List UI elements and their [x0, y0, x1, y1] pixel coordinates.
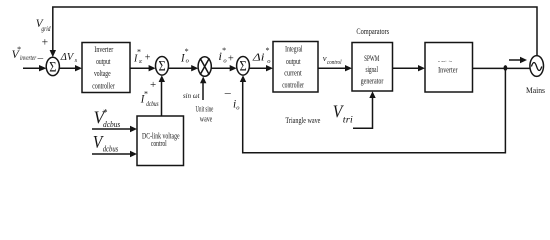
svg-text:tri: tri	[343, 116, 353, 126]
svg-text:o: o	[267, 58, 271, 65]
block text: SPWM signal generator	[361, 54, 384, 86]
svg-text:sin ωt: sin ωt	[183, 91, 200, 100]
svg-text:Integral: Integral	[285, 45, 303, 54]
label: Vgrid	[36, 16, 51, 49]
wire: sum2 to multiplier	[168, 65, 198, 71]
svg-text:controller: controller	[92, 82, 115, 91]
svg-text:+: +	[42, 36, 49, 48]
wire: unit sine wave input to multiplier	[200, 77, 206, 101]
label: I*dcbus	[140, 90, 159, 109]
summing junction S2	[156, 57, 169, 76]
svg-text:current: current	[284, 69, 302, 78]
block text: integral output current controller	[282, 45, 304, 90]
block: inverter output voltage controller	[82, 43, 130, 93]
svg-text:output: output	[286, 57, 301, 66]
svg-text:control: control	[327, 59, 342, 66]
block text: inverter output voltage controller	[92, 45, 115, 91]
svg-text:dcbus: dcbus	[103, 120, 120, 129]
label: V*inverter	[12, 45, 44, 64]
svg-text:Σ: Σ	[240, 59, 247, 75]
wire: current controller to SPWM	[318, 65, 352, 71]
svg-text:Comparators: Comparators	[356, 27, 389, 36]
svg-text:Inverter: Inverter	[438, 66, 458, 75]
summing junction S1	[46, 57, 59, 75]
label: V*dcbus	[94, 108, 121, 130]
wire: bottom feedback io from node to sum3	[240, 70, 506, 153]
svg-text:Δi: Δi	[252, 51, 265, 63]
wire: input V*inverter arrow	[23, 65, 47, 71]
svg-text:dcbus: dcbus	[146, 100, 159, 108]
label: vcontrol	[323, 53, 342, 66]
svg-text:o: o	[223, 58, 227, 65]
label: delta i*o	[252, 46, 272, 65]
label: Vdcbus	[93, 132, 118, 153]
label: delta Vs	[60, 51, 78, 64]
svg-text:voltage: voltage	[94, 69, 111, 78]
svg-text:*: *	[184, 47, 188, 56]
svg-text:ac: ac	[139, 58, 142, 65]
svg-text:*: *	[265, 46, 269, 55]
svg-text:grid: grid	[41, 25, 50, 33]
wire: I*dcbus from DC-link block to sum2	[159, 75, 165, 116]
svg-text:o: o	[236, 104, 240, 111]
svg-text:*: *	[103, 108, 108, 118]
block text: DC-link voltage control	[142, 132, 180, 148]
svg-text:+: +	[145, 52, 151, 63]
block: integral output current controller	[273, 42, 318, 93]
block: inverter	[425, 43, 473, 93]
multiplier M1	[198, 57, 211, 77]
wire: Vdcbus input arrow	[92, 151, 137, 157]
svg-text:controller: controller	[282, 81, 304, 90]
summing junction S3	[237, 57, 250, 76]
wire: top feedback Vgrid from mains to sum1	[50, 7, 537, 57]
svg-text:Unit sine: Unit sine	[196, 105, 214, 114]
block text: inverter	[438, 59, 458, 75]
block: DC-link voltage control	[137, 116, 184, 166]
label: io feedback	[233, 99, 240, 112]
wire: sum1 to voltage controller	[59, 65, 82, 71]
svg-text:Inverter: Inverter	[94, 45, 113, 54]
svg-text:inverter: inverter	[20, 53, 36, 62]
svg-text:–: –	[37, 52, 44, 64]
label: i*o	[218, 46, 234, 65]
label: I*ac	[133, 48, 151, 65]
svg-text:+: +	[228, 54, 234, 65]
svg-text:SPWM: SPWM	[364, 54, 380, 63]
wire: controller to sum2	[130, 65, 156, 71]
svg-text:s: s	[75, 57, 78, 64]
block: SPWM signal generator	[352, 43, 393, 92]
label: I*o	[180, 47, 190, 64]
svg-text:signal: signal	[365, 65, 378, 74]
svg-text:Mains: Mains	[526, 86, 545, 95]
wire: SPWM to inverter	[393, 65, 426, 71]
ac source: mains	[530, 56, 544, 77]
wire: inverter to mains	[473, 67, 531, 69]
svg-text:dcbus: dcbus	[103, 144, 119, 153]
svg-text:output: output	[96, 57, 111, 66]
svg-text:+: +	[150, 79, 156, 91]
node: junction dot	[504, 65, 508, 71]
svg-text:–: –	[224, 85, 232, 99]
svg-text:*: *	[222, 46, 226, 55]
svg-text:Σ: Σ	[159, 59, 166, 75]
svg-text:Σ: Σ	[49, 59, 56, 75]
svg-text:control: control	[151, 139, 167, 148]
label: Vtri	[333, 101, 353, 125]
wire: Vtri input to SPWM	[353, 91, 376, 128]
svg-text:generator: generator	[361, 77, 384, 86]
svg-text:ΔV: ΔV	[60, 51, 75, 63]
wire: output current direction arrow	[509, 57, 527, 63]
wire: multiplier to sum3	[211, 65, 237, 71]
svg-text:o: o	[186, 58, 190, 65]
wire: V*dcbus input arrow	[92, 126, 137, 132]
svg-text:wave: wave	[200, 115, 213, 124]
svg-text:Triangle wave: Triangle wave	[285, 116, 320, 125]
svg-text:*: *	[144, 90, 148, 99]
svg-text:- --· ·-: - --· ·-	[438, 59, 452, 65]
wire: sum3 to current controller	[249, 65, 273, 71]
svg-text:*: *	[137, 48, 141, 57]
